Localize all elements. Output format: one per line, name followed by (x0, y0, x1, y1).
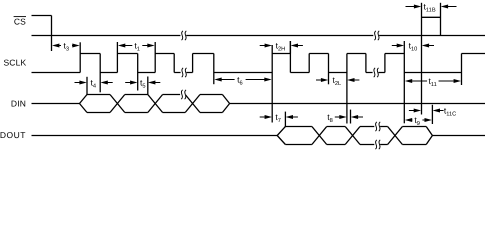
CS low rail (runs to right edge) (32, 35, 485, 37)
svg-text:t11C: t11C (444, 106, 456, 118)
svg-text:t11B: t11B (424, 2, 436, 14)
timing annotation t11 (CS rise to next SCLK rise) (405, 76, 461, 88)
SCLK low-line break (left) (181, 68, 187, 77)
timing annotation t11B (CS high pulse width) (406, 2, 457, 14)
svg-text:t2H: t2H (276, 41, 286, 53)
svg-text:t8: t8 (327, 112, 333, 124)
timing annotation t2H (SCLK high pulse width) (260, 41, 303, 54)
timing annotation t6 (last DIN SCLK fall to DOUT SCLK rise) (214, 75, 271, 87)
CS pulse top (right) (422, 16, 441, 18)
signal label DIN (11, 99, 26, 109)
DIN top-edge break (180, 90, 186, 99)
svg-text:t5: t5 (140, 78, 146, 90)
svg-text:t10: t10 (409, 41, 418, 53)
svg-text:SCLK: SCLK (3, 57, 26, 67)
svg-text:t7: t7 (275, 112, 281, 124)
timing annotation t4 (DIN setup), ticks at DIN-valid corner and SCLK fall (75, 77, 113, 95)
DOUT bottom-edge break (374, 140, 380, 149)
DIN waveform (data hexagons) (32, 95, 485, 113)
svg-text:t11: t11 (428, 76, 436, 88)
SCLK rising-edge long reference line (t2L/t8) (346, 54, 348, 124)
timing annotation t10 (SCLK fall to CS rise) (392, 41, 434, 53)
DOUT waveform (data hexagons) (32, 127, 485, 145)
timing annotation t11C (CS rise to DOUT tri-state), label outside right (409, 106, 456, 118)
timing annotation t3 (CS fall to SCLK rise) (52, 41, 80, 53)
svg-text:DIN: DIN (11, 99, 26, 109)
CS high segment (32, 15, 52, 17)
timing annotation t8 (DOUT hold from SCLK rise), label outside left (327, 110, 363, 124)
svg-text:t1: t1 (134, 41, 140, 53)
SCLK waveform (32, 41, 485, 123)
CS pulse rising edge / long reference line down to DOUT area (421, 3, 423, 115)
CS pulse falling edge with tick extension up to t11B line (440, 3, 442, 36)
svg-text:CS: CS (14, 17, 26, 27)
signal label CS (active low) with overline (14, 17, 27, 27)
DOUT top-edge break (374, 122, 380, 131)
timing annotation t5 (DIN hold), ticks at SCLK fall and DIN-change corner (125, 77, 160, 95)
svg-text:t4: t4 (91, 78, 97, 90)
svg-text:t2L: t2L (332, 75, 341, 87)
SCLK low-line break (right) (373, 68, 379, 77)
timing annotation t9 (last DOUT bit valid to tri-state) (405, 105, 433, 127)
signal label SCLK (3, 57, 26, 67)
CS low-line break (right) (373, 31, 379, 40)
timing annotation t7 (SCLK rise to DOUT valid) (260, 112, 298, 127)
svg-text:t6: t6 (237, 75, 243, 87)
timing annotation t2L (SCLK low pulse width) (316, 75, 359, 87)
timing annotation t1 (SCLK period) (118, 41, 155, 53)
svg-text:t3: t3 (64, 41, 70, 53)
SCLK rising-edge long reference line (t6/t2H/t7) (271, 45, 273, 123)
CS low-line break (left) (180, 31, 186, 40)
svg-text:t9: t9 (414, 115, 420, 127)
signal label DOUT (0, 130, 26, 140)
svg-text:DOUT: DOUT (0, 130, 26, 140)
CS falling edge with tick extension to t3 line (51, 16, 53, 52)
